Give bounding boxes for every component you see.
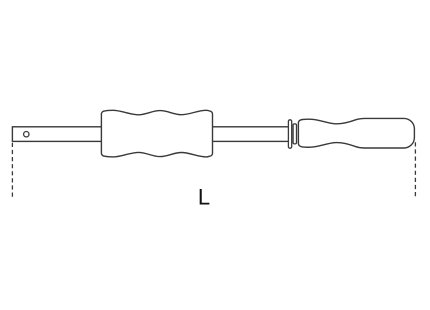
hole in shaft end bbox=[24, 132, 29, 137]
washer flange bbox=[288, 120, 291, 148]
svg-text:L: L bbox=[198, 185, 210, 210]
slide hammer weight bbox=[101, 110, 212, 157]
shaft bar bbox=[12, 127, 289, 142]
handle bbox=[298, 118, 414, 148]
left extension dashed line bbox=[11, 143, 13, 197]
right extension dashed line bbox=[414, 142, 416, 197]
ferrule collar bbox=[293, 124, 296, 144]
